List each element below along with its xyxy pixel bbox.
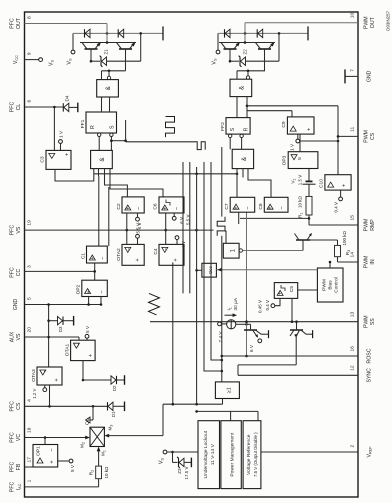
svg-text:Undervoltage Lockout: Undervoltage Lockout [203, 430, 209, 478]
svg-text:7: 7 [350, 69, 356, 72]
svg-text:C10: C10 [319, 179, 325, 188]
svg-text:OP1: OP1 [36, 446, 42, 456]
svg-text:8: 8 [27, 16, 33, 19]
svg-text:Z2: Z2 [243, 49, 248, 55]
svg-text:D2: D2 [112, 385, 117, 391]
svg-text:C2: C2 [116, 203, 122, 210]
svg-text:R1: R1 [298, 212, 304, 218]
svg-text:C7: C7 [224, 203, 230, 210]
svg-text:CS: CS [16, 402, 22, 410]
svg-text:VS: VS [67, 58, 73, 65]
svg-text:R: R [244, 127, 250, 131]
svg-text:+: + [126, 207, 132, 210]
svg-text:C1: C1 [81, 253, 87, 260]
svg-text:0.45 V: 0.45 V [258, 300, 263, 313]
svg-text:Control: Control [334, 277, 340, 292]
svg-text:SS: SS [370, 318, 376, 325]
svg-text:RMP: RMP [370, 219, 376, 231]
svg-text:PFC: PFC [10, 102, 16, 113]
svg-text:C6: C6 [153, 203, 159, 210]
svg-text:OTA1: OTA1 [65, 344, 71, 357]
svg-text:+: + [86, 290, 92, 293]
svg-text:−: − [245, 206, 251, 209]
svg-text:PFC: PFC [10, 267, 16, 278]
svg-text:S: S [110, 125, 116, 129]
svg-text:17.5 V: 17.5 V [184, 467, 189, 480]
svg-text:11 V-14 V: 11 V-14 V [210, 443, 216, 465]
svg-text:R3: R3 [345, 250, 351, 256]
svg-text:OUT: OUT [16, 17, 22, 29]
svg-text:19: 19 [27, 220, 33, 226]
svg-text:2: 2 [350, 445, 356, 448]
svg-text:M1: M1 [101, 450, 107, 456]
svg-text:9: 9 [27, 52, 33, 55]
svg-text:13: 13 [350, 311, 356, 317]
svg-text:OP3: OP3 [282, 155, 288, 165]
svg-text:C9: C9 [281, 121, 287, 128]
svg-text:18: 18 [27, 427, 33, 433]
svg-text:AUX: AUX [10, 331, 16, 342]
svg-text:VC: VC [16, 434, 22, 441]
svg-text:CL: CL [16, 104, 22, 111]
svg-text:−: − [42, 370, 48, 373]
svg-text:Z1: Z1 [104, 49, 109, 55]
svg-text:D3: D3 [58, 326, 63, 332]
svg-text:ROSC: ROSC [367, 348, 373, 363]
svg-text:OTA3: OTA3 [31, 369, 37, 382]
svg-text:VS: VS [16, 226, 22, 233]
svg-text:OUT: OUT [370, 16, 376, 28]
svg-text:+: + [307, 128, 313, 131]
svg-text:≥1: ≥1 [227, 387, 233, 393]
svg-text:−: − [50, 448, 56, 451]
svg-text:FF2: FF2 [220, 122, 226, 131]
svg-text:CC: CC [16, 269, 22, 277]
svg-text:VS: VS [49, 60, 55, 66]
svg-text:+: + [342, 184, 348, 187]
svg-text:C8: C8 [258, 203, 264, 210]
svg-text:OP2: OP2 [76, 284, 82, 294]
svg-text:+: + [54, 378, 60, 381]
svg-text:C4: C4 [153, 248, 159, 255]
svg-text:−: − [136, 207, 142, 210]
svg-text:C3: C3 [40, 156, 46, 163]
svg-text:I1: I1 [227, 307, 233, 310]
svg-text:16: 16 [350, 346, 356, 352]
svg-text:IAC: IAC [16, 483, 22, 490]
svg-text:PWM: PWM [364, 219, 370, 232]
svg-text:VS: VS [16, 333, 22, 340]
svg-text:7.5 V (Output Disable ): 7.5 V (Output Disable ) [253, 432, 258, 477]
svg-text:15: 15 [350, 215, 356, 221]
svg-text:CS: CS [370, 132, 376, 140]
svg-text:−: − [164, 248, 170, 251]
svg-text:PWM: PWM [364, 315, 370, 328]
svg-text:M3: M3 [108, 425, 114, 431]
svg-text:6: 6 [27, 100, 33, 103]
svg-text:PFC: PFC [10, 401, 16, 412]
svg-text:R2: R2 [89, 470, 95, 476]
svg-text:+: + [234, 206, 240, 209]
svg-text:FF1: FF1 [80, 119, 86, 128]
svg-text:+: + [268, 206, 274, 209]
svg-text:6 V: 6 V [249, 344, 254, 352]
svg-text:−: − [100, 257, 106, 260]
svg-text:R: R [90, 125, 96, 129]
svg-text:+: + [90, 257, 96, 260]
svg-text:PWM: PWM [322, 279, 328, 291]
svg-text:VREF: VREF [367, 446, 373, 458]
svg-text:11: 11 [350, 127, 356, 132]
svg-text:Voltage Reference: Voltage Reference [246, 434, 252, 475]
svg-text:−: − [174, 207, 180, 210]
svg-text:20: 20 [27, 327, 33, 333]
svg-text:PFC: PFC [10, 18, 16, 29]
svg-text:10: 10 [350, 12, 356, 18]
svg-text:GND: GND [13, 298, 19, 310]
svg-text:+: + [173, 258, 179, 261]
svg-text:−: − [76, 343, 82, 346]
svg-text:0.4 V: 0.4 V [265, 300, 270, 311]
svg-text:1 V: 1 V [137, 223, 142, 230]
svg-text:17: 17 [27, 457, 33, 463]
svg-text:PWM: PWM [364, 130, 370, 143]
svg-text:+: + [135, 258, 141, 261]
svg-text:+: + [163, 207, 169, 210]
svg-text:10 kΩ: 10 kΩ [298, 195, 303, 208]
svg-text:Bias: Bias [328, 280, 334, 290]
svg-text:+: + [278, 292, 284, 295]
svg-text:M2: M2 [80, 442, 86, 448]
svg-text:PWM: PWM [364, 256, 370, 269]
svg-text:PFC: PFC [10, 462, 16, 473]
svg-text:PWM: PWM [364, 16, 370, 29]
svg-text:Power Management: Power Management [229, 432, 235, 476]
svg-text:3: 3 [27, 265, 33, 268]
svg-text:12: 12 [350, 365, 356, 371]
svg-text:D93IN257: D93IN257 [386, 10, 391, 30]
svg-text:IN: IN [370, 259, 376, 264]
svg-text:−: − [99, 290, 105, 293]
svg-text:D1: D1 [111, 411, 116, 417]
svg-text:10 kΩ: 10 kΩ [104, 466, 109, 479]
svg-text:−: − [127, 248, 133, 251]
svg-text:PFC: PFC [10, 481, 16, 492]
svg-text:−: − [279, 206, 285, 209]
svg-text:V1: V1 [291, 178, 297, 183]
svg-text:+: + [50, 460, 56, 463]
svg-text:+: + [88, 354, 94, 357]
svg-text:VCC: VCC [13, 55, 19, 64]
svg-text:D4: D4 [65, 95, 70, 101]
svg-text:SYNC: SYNC [367, 368, 373, 383]
svg-text:PFC: PFC [10, 225, 16, 236]
svg-text:FB: FB [16, 463, 22, 470]
svg-text:OTA2: OTA2 [116, 248, 122, 261]
svg-text:100 kΩ: 100 kΩ [342, 230, 347, 245]
svg-text:5: 5 [297, 157, 303, 160]
svg-text:5 V: 5 V [85, 325, 90, 333]
svg-text:1 V: 1 V [290, 143, 295, 151]
svg-text:VS: VS [159, 458, 165, 465]
svg-text:+: + [65, 153, 71, 156]
svg-text:1 V: 1 V [59, 130, 64, 138]
svg-text:30 µA: 30 µA [233, 297, 238, 310]
svg-text:1.5 V: 1.5 V [298, 175, 303, 186]
svg-text:5: 5 [27, 297, 33, 300]
svg-text:1: 1 [27, 479, 33, 482]
svg-text:0.4 V: 0.4 V [334, 202, 339, 213]
svg-text:Z3: Z3 [177, 468, 182, 474]
svg-text:C5: C5 [289, 286, 295, 292]
svg-text:GND: GND [367, 70, 373, 82]
svg-text:VS: VS [212, 58, 218, 65]
svg-text:1.2 V: 1.2 V [32, 388, 37, 398]
svg-text:5 V: 5 V [70, 464, 75, 472]
svg-text:PFC: PFC [10, 432, 16, 443]
